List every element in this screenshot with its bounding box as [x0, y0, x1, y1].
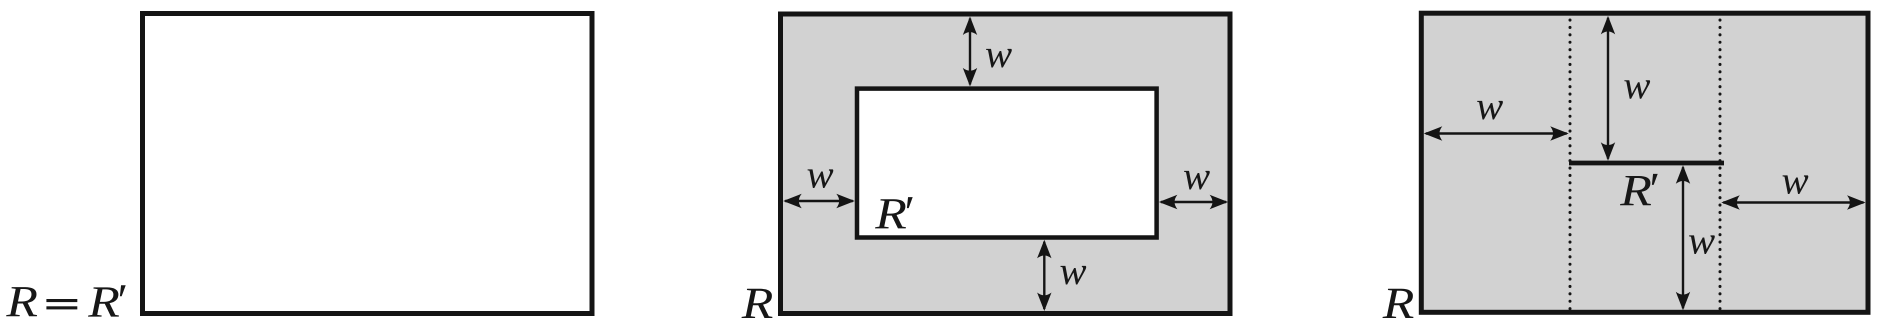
- label w top (right figure): [1624, 80, 1650, 99]
- label R' below segment (right figure): [1620, 174, 1658, 205]
- segment R' (right figure, thick horizontal): [1569, 161, 1724, 166]
- label w left (right figure): [1477, 101, 1503, 120]
- arrow w right (right figure): [1721, 195, 1865, 209]
- rectangle R=R' (left figure): [143, 14, 593, 314]
- arrow w left (right figure): [1424, 126, 1569, 140]
- label w bottom (middle figure): [1060, 266, 1086, 285]
- arrow w right (middle figure): [1159, 195, 1228, 209]
- label w top (middle figure): [986, 49, 1012, 68]
- arrow w left (middle figure): [783, 194, 855, 208]
- label w right (right figure): [1783, 175, 1809, 194]
- arrow w bottom (right figure): [1676, 165, 1690, 310]
- dotted guide line left (right figure): [1569, 20, 1572, 309]
- rectangle R outer (middle figure, gray): [781, 14, 1231, 314]
- label R outer (middle figure): [742, 289, 773, 318]
- label R' inner (middle figure): [875, 197, 913, 228]
- arrow w bottom (middle figure): [1037, 240, 1051, 311]
- label R of R = R' (left figure): [6, 287, 37, 316]
- arrow w top (middle figure): [963, 17, 977, 87]
- dotted guide line right (right figure): [1719, 20, 1722, 309]
- rectangle R outer (right figure, gray): [1421, 13, 1868, 312]
- arrow w top (right figure): [1601, 16, 1615, 161]
- label w right (middle figure): [1184, 171, 1210, 190]
- label R outer (right figure): [1383, 289, 1414, 318]
- label w bottom (right figure): [1689, 235, 1715, 254]
- equals sign of label R = R' (left figure): [46, 299, 77, 302]
- label R' of R = R' (left figure): [88, 285, 126, 316]
- label w left (middle figure): [808, 169, 834, 188]
- rectangle R' inner (middle figure, white): [857, 89, 1157, 238]
